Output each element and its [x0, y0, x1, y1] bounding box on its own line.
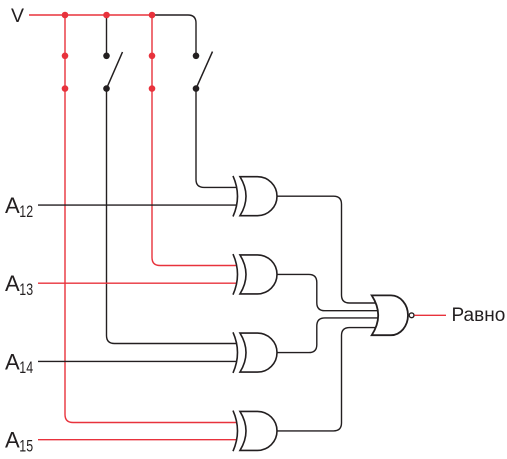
XOR gate U4 (A15) [233, 411, 277, 452]
wire col1: switch S1 (closed) through to XOR4 top input [65, 15, 236, 423]
svg-text:A: A [5, 349, 20, 374]
junction dot col3 [149, 12, 156, 19]
svg-text:A: A [5, 271, 20, 296]
wire XOR1 output to NOR input 1 [277, 196, 377, 303]
switch S3 contact dots (closed, red) [149, 53, 156, 60]
switch S1 contact dots (closed, red) [62, 53, 69, 60]
wire col3: switch S3 (closed) through to XOR2 top input [152, 15, 236, 266]
svg-text:14: 14 [19, 358, 33, 377]
svg-text:12: 12 [19, 202, 33, 221]
svg-text:13: 13 [19, 280, 33, 299]
wire bus to switch S2 [106, 15, 108, 56]
wire A15 to XOR4 bottom input (red) [38, 439, 236, 441]
svg-text:Равно: Равно [452, 305, 506, 326]
NOR gate U5 [372, 295, 408, 335]
XOR gate U3 (A14) [233, 332, 277, 373]
NOR output bubble [409, 313, 414, 318]
svg-text:15: 15 [19, 437, 33, 456]
wire A12 to XOR1 bottom input [38, 204, 236, 206]
wire A13 to XOR2 bottom input (red) [38, 282, 236, 284]
switch S4 (open): contacts and blade [193, 53, 200, 60]
wire NOR output (red) [414, 314, 446, 316]
junction dot col1 [62, 12, 69, 19]
svg-text:A: A [5, 193, 20, 218]
wire XOR3 output to NOR input 3 [277, 318, 379, 353]
wire V bus (red) [29, 14, 152, 16]
XOR gate U2 (A13) [233, 254, 277, 295]
switch S2 (open): contacts and blade [103, 53, 110, 60]
svg-text:V: V [11, 5, 24, 27]
wire switch S2 to XOR3 top input [107, 89, 237, 344]
svg-text:A: A [5, 428, 20, 453]
wire XOR2 output to NOR input 2 [277, 274, 379, 310]
wire bus to switch S4 [152, 15, 196, 56]
junction dot col2 [103, 12, 110, 19]
wire switch S4 to XOR1 top input [196, 89, 236, 188]
wire A14 to XOR3 bottom input [38, 360, 236, 362]
wire XOR4 output to NOR input 4 [277, 328, 377, 431]
XOR gate U1 (A12) [233, 176, 277, 217]
